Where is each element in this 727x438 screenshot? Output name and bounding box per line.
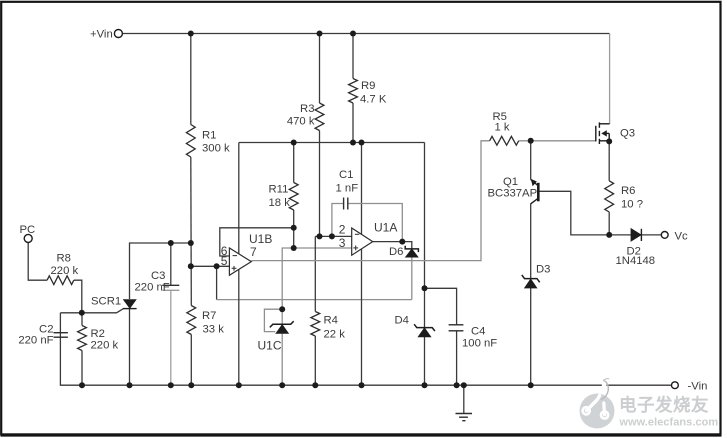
wire U1C anode to rail <box>281 333 283 385</box>
wire node to D2 anode <box>609 234 631 236</box>
svg-text:220 k: 220 k <box>51 265 79 277</box>
wire R5 right to Q3 gate <box>519 140 596 142</box>
terminal -Vin <box>672 382 679 389</box>
wire vertical x=361.5 to rail <box>361 143 363 386</box>
wire R1 to R7 segment <box>190 157 193 306</box>
resistor R6 10ohm <box>605 181 614 212</box>
resistor R7 33k <box>187 306 196 335</box>
wire Q3 drain drop from top rail <box>609 34 611 125</box>
zener diode D3 <box>522 275 540 288</box>
svg-text:1 nF: 1 nF <box>336 183 359 195</box>
wire R8 right to R2 node <box>74 280 82 313</box>
svg-text:3: 3 <box>339 236 346 250</box>
svg-text:R6: R6 <box>621 185 635 197</box>
svg-text:10 ?: 10 ? <box>621 199 643 211</box>
wire U1A pin2 horizontal <box>315 235 351 237</box>
svg-text:22 k: 22 k <box>324 329 346 341</box>
wire PC terminal to R8 <box>28 243 47 281</box>
transistor Q1 BC337AP <box>531 179 539 204</box>
svg-text:220 nF: 220 nF <box>135 282 170 294</box>
wire C4 bottom lead <box>456 331 458 385</box>
wire SCR gate horizontal y=312.8 <box>60 309 123 313</box>
wire long horizontal pin5 to D6 anode y=299.6 <box>217 299 412 301</box>
svg-text:R7: R7 <box>202 310 216 322</box>
wire SCR anode horizontal y=243 <box>130 243 191 299</box>
wire R9 bottom lead <box>352 103 354 143</box>
wire U1A output to D6 <box>373 242 412 249</box>
capacitor C2 220nF <box>54 333 68 338</box>
wire R4 vertical branch <box>314 236 316 311</box>
wire C1 left lead <box>332 204 344 237</box>
terminal +Vin <box>114 30 122 38</box>
wire D3 anode to rail <box>530 288 532 385</box>
svg-text:100 nF: 100 nF <box>462 338 497 350</box>
MOSFET Q3 <box>596 122 610 144</box>
resistor R5 1k <box>490 136 519 145</box>
resistor R2 220k <box>78 326 87 351</box>
resistor R4 22k <box>311 312 320 337</box>
svg-text:Vc: Vc <box>675 231 689 243</box>
wire C3 top lead <box>170 243 172 285</box>
wire R4 bottom to rail <box>314 336 316 385</box>
capacitor C1 1nF <box>344 198 348 210</box>
svg-text:1 k: 1 k <box>495 122 510 134</box>
wire C4 branch from x=424.5 node <box>425 288 457 325</box>
zener diode D4 <box>414 324 435 337</box>
svg-text:7: 7 <box>250 245 257 259</box>
wire R1 R7 vertical branch x=191 <box>190 34 192 125</box>
wire mid horizontal y=142.5 <box>239 142 425 144</box>
svg-text:www.elecfans.com: www.elecfans.com <box>619 417 719 429</box>
svg-text:U1C: U1C <box>258 339 282 353</box>
wire C2 top lead <box>59 313 61 333</box>
wire U1B pin6 link to R11 <box>220 228 294 256</box>
svg-text:C4: C4 <box>471 326 485 338</box>
wire U1A pin3 horizontal <box>282 248 352 309</box>
svg-text:33 k: 33 k <box>203 324 225 336</box>
wire R7 bottom to rail <box>190 335 192 386</box>
resistor R11 18k <box>289 183 298 211</box>
op-amp U1B <box>229 248 251 275</box>
wire SCR cathode to rail <box>129 309 131 386</box>
wire Q1 base to R6 D2 node <box>540 191 610 235</box>
resistor R8 220k <box>47 276 74 285</box>
wire pin5 node drop to y=299.6 <box>216 266 218 299</box>
wire vertical x=238.8 through U1B to rail <box>238 143 240 386</box>
svg-text:5: 5 <box>221 254 228 268</box>
svg-text:220 k: 220 k <box>91 340 119 352</box>
thyristor SCR1 <box>123 300 137 309</box>
svg-text:Q1: Q1 <box>503 176 518 188</box>
svg-text:R3: R3 <box>300 103 314 115</box>
resistor R9 4.7K <box>349 79 358 104</box>
resistor R3 470k <box>315 103 324 131</box>
svg-text:4.7 K: 4.7 K <box>360 94 387 106</box>
capacitor C3 220nF <box>162 285 179 290</box>
ground <box>456 414 473 421</box>
wire R3 branch from top rail <box>319 34 321 104</box>
svg-text:C1: C1 <box>339 169 353 181</box>
terminal Vc <box>661 232 668 239</box>
wire C1 right lead to U1A output <box>348 204 403 242</box>
wire U1B pin5 horizontal <box>191 265 230 267</box>
svg-text:+Vin: +Vin <box>90 29 113 41</box>
wire ground stub <box>463 385 465 413</box>
wire R9 branch from top rail <box>352 34 354 79</box>
svg-text:R1: R1 <box>202 130 216 142</box>
svg-text:电子发烧友: 电子发烧友 <box>619 395 709 415</box>
wire U1B output to R5 left <box>251 141 489 261</box>
svg-text:300 k: 300 k <box>202 143 230 155</box>
wire D6 anode drop <box>411 257 413 300</box>
svg-text:1N4148: 1N4148 <box>616 255 656 267</box>
op-amp U1A <box>352 228 373 255</box>
svg-text:R4: R4 <box>324 315 338 327</box>
wire R6 bottom to node <box>608 212 610 235</box>
watermark logo elecfans <box>580 379 615 429</box>
svg-text:R8: R8 <box>57 253 71 265</box>
svg-text:18 k: 18 k <box>269 197 291 209</box>
wire Q1 collector down to D3 <box>530 204 532 279</box>
wire vertical x=424.5 to rail with D4 <box>424 143 426 386</box>
svg-text:R11: R11 <box>269 184 289 196</box>
shunt reference U1C <box>270 321 294 333</box>
wire R11 branch x=293.7 <box>293 143 295 183</box>
wire U1C top node loop <box>264 309 282 331</box>
svg-text:2: 2 <box>339 223 346 237</box>
capacitor C4 100nF <box>449 325 464 331</box>
svg-text:C3: C3 <box>151 270 165 282</box>
svg-text:SCR1: SCR1 <box>91 296 121 308</box>
wire Q1 emitter up to R5 node <box>530 141 532 180</box>
wire D2 cathode to Vc terminal <box>641 234 661 236</box>
wire U1C cathode stub <box>281 309 283 324</box>
wire R2 bottom to rail <box>81 351 83 386</box>
wire C3 bottom lead gray <box>170 290 172 385</box>
svg-text:D6: D6 <box>389 246 403 258</box>
wire R11 bottom to pin3 node <box>293 210 295 248</box>
terminal PC <box>24 234 32 242</box>
wire top rail +Vin <box>123 33 610 35</box>
wire R3 bottom to U1A pin2 <box>319 131 321 237</box>
svg-text:470 k: 470 k <box>287 116 315 128</box>
svg-text:Q3: Q3 <box>620 128 635 140</box>
svg-text:U1A: U1A <box>374 221 397 235</box>
wire bottom rail <box>60 333 671 386</box>
svg-text:R9: R9 <box>361 80 375 92</box>
svg-text:BC337AP: BC337AP <box>488 188 538 200</box>
diode D2 1N4148 <box>631 229 641 241</box>
wire Q3 source to R6 <box>608 141 610 180</box>
wire R2 top lead <box>81 313 83 326</box>
svg-text:U1B: U1B <box>249 232 272 246</box>
svg-text:PC: PC <box>20 224 36 236</box>
resistor R1 300k <box>186 125 195 158</box>
zener diode D6 <box>405 246 418 257</box>
svg-text:220 nF: 220 nF <box>18 335 53 347</box>
svg-text:D4: D4 <box>395 315 409 327</box>
svg-text:D3: D3 <box>536 264 550 276</box>
svg-text:R2: R2 <box>91 328 105 340</box>
svg-text:-Vin: -Vin <box>688 381 708 393</box>
